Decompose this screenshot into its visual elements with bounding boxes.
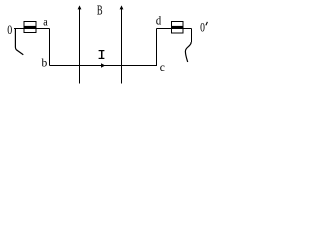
current label I xyxy=(99,50,105,59)
svg-text:a: a xyxy=(43,16,48,28)
prime mark of O' xyxy=(206,22,208,25)
bearing box at O xyxy=(24,22,36,33)
lead wire hook below O' xyxy=(185,42,191,62)
wire corner down at O' xyxy=(191,29,193,43)
bearing box at O' xyxy=(172,22,184,34)
lead wire hook below O xyxy=(15,29,23,55)
field arrowhead left xyxy=(78,5,82,9)
svg-text:0: 0 xyxy=(200,21,205,35)
svg-text:0: 0 xyxy=(7,23,12,37)
magnetic field line B right shaft xyxy=(121,8,123,84)
svg-text:c: c xyxy=(160,62,165,74)
coil side bc xyxy=(50,65,158,67)
current arrowhead on bc xyxy=(101,63,105,67)
svg-text:B: B xyxy=(97,4,103,19)
coil side ab xyxy=(49,29,51,66)
field arrowhead right xyxy=(120,5,124,9)
coil side cd xyxy=(156,29,158,67)
svg-text:b: b xyxy=(42,58,48,70)
wire O to a xyxy=(14,28,50,30)
magnetic field line B left shaft xyxy=(79,8,81,84)
svg-text:d: d xyxy=(156,12,162,27)
wire d to O' xyxy=(157,28,192,30)
